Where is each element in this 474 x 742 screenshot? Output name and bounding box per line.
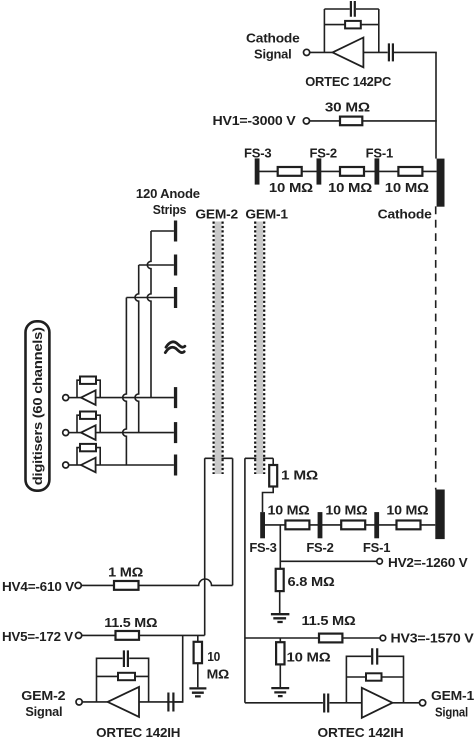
- svg-text:FS-1: FS-1: [363, 540, 390, 555]
- wire feedback loop right vertical: [378, 9, 380, 52]
- wire strip 1 horizontal: [151, 230, 174, 232]
- svg-text:Signal: Signal: [254, 47, 292, 62]
- node anode strip 4 bar: [174, 387, 177, 408]
- ground under 10 MOhm right: [271, 688, 289, 696]
- wire 10 MOhm right stem: [279, 638, 281, 642]
- svg-text:Signal: Signal: [25, 704, 62, 719]
- svg-text:FS-1: FS-1: [366, 145, 393, 160]
- GEM-2 foil strip: [214, 222, 223, 475]
- wire FS-3 node down to HV2 and 6.8 MOhm: [279, 525, 281, 569]
- wire feedback resistor rung: [324, 24, 378, 26]
- wire feedback top rung: [324, 8, 378, 10]
- svg-text:10 MΩ: 10 MΩ: [268, 503, 310, 518]
- node FS-1 top strip bar: [375, 158, 380, 184]
- resistor R4 10 MOhm: [340, 167, 364, 176]
- svg-text:GEM-2: GEM-2: [21, 688, 65, 703]
- wire HV3 horizontal: [245, 637, 380, 639]
- svg-text:10 MΩ: 10 MΩ: [386, 503, 428, 518]
- resistor R15 10 MOhm right: [276, 642, 284, 664]
- wire vertical bus 2 with hops: [135, 265, 139, 433]
- svg-text:FS-3: FS-3: [249, 540, 276, 555]
- resistor R14 11.5 MOhm right: [319, 634, 342, 643]
- svg-text:HV4=-610 V: HV4=-610 V: [2, 579, 75, 594]
- GEM-2 frame right electrode wire: [232, 458, 234, 585]
- GEM-1 foil strip: [255, 222, 264, 475]
- svg-text:Strips: Strips: [153, 202, 187, 217]
- resistor R8 10 MOhm: [341, 521, 365, 530]
- node HV3 terminal: [380, 635, 386, 641]
- node FS-3 bottom strip bar: [260, 512, 265, 538]
- wire 10 MOhm left to ground: [197, 663, 199, 687]
- GEM-1 frame top edge wire: [245, 457, 273, 459]
- op-amp A3 digitiser channel: [63, 444, 174, 472]
- node cathode electrode bar: [437, 159, 445, 207]
- resistor R7 10 MOhm: [285, 521, 309, 530]
- digitisers box: [26, 321, 50, 490]
- node Cathode Signal terminal: [304, 49, 310, 55]
- svg-text:digitisers (60 channels): digitisers (60 channels): [30, 327, 45, 485]
- resistor R2 30 MOhm: [340, 117, 362, 126]
- resistor R11 1 MOhm: [114, 581, 139, 590]
- node FS-2 bottom strip bar: [318, 512, 323, 538]
- resistor R3 10 MOhm: [278, 167, 302, 176]
- wire dashed field cage: [435, 206, 437, 489]
- resistor R12 11.5 MOhm: [116, 631, 140, 640]
- wire 10 MOhm right to ground: [279, 664, 281, 687]
- node HV2 terminal: [377, 559, 383, 565]
- svg-text:30 MΩ: 30 MΩ: [325, 99, 370, 114]
- capacitor C1 feedback of U1: [351, 1, 355, 17]
- svg-text:FS-2: FS-2: [310, 145, 337, 160]
- svg-text:HV5=-172 V: HV5=-172 V: [2, 629, 74, 644]
- wire top field strip chain: [257, 170, 437, 172]
- wire HV5 node down to GEM-2 amp coupling: [167, 635, 183, 702]
- svg-text:10 MΩ: 10 MΩ: [269, 180, 313, 195]
- node FS-1 bottom strip bar: [374, 512, 379, 538]
- svg-text:11.5 MΩ: 11.5 MΩ: [302, 613, 356, 628]
- resistor R1 feedback of U1: [345, 21, 361, 29]
- wire U1 input: [363, 51, 387, 53]
- wire bottom field strip chain: [263, 524, 436, 526]
- svg-text:6.8 MΩ: 6.8 MΩ: [288, 574, 335, 589]
- svg-text:ORTEC 142PC: ORTEC 142PC: [305, 74, 392, 89]
- svg-text:11.5 MΩ: 11.5 MΩ: [104, 615, 157, 630]
- resistor R9 10 MOhm: [397, 521, 421, 530]
- op-amp U1 triangle: [333, 38, 364, 68]
- wire 10 MOhm left stem: [197, 635, 199, 641]
- op-amp U2 ORTEC 142IH left (GEM-2): [76, 650, 183, 717]
- wire 30 MOhm to cathode bus: [362, 120, 437, 122]
- svg-text:GEM-1: GEM-1: [431, 688, 474, 703]
- svg-text:GEM-2: GEM-2: [195, 207, 238, 222]
- node HV1 terminal: [303, 118, 309, 124]
- wire 6.8 MOhm to ground: [279, 591, 281, 613]
- svg-text:120 Anode: 120 Anode: [136, 186, 200, 201]
- node anode strip 2 bar: [174, 255, 177, 276]
- svg-text:10 MΩ: 10 MΩ: [287, 649, 331, 664]
- wire coupling cap to cathode bus: [394, 51, 437, 53]
- svg-text:HV2=-1260 V: HV2=-1260 V: [388, 555, 468, 570]
- wire HV1 to resistor: [310, 120, 341, 122]
- wire U1 output to terminal: [310, 51, 333, 53]
- wire vertical bus 3 with hops: [123, 298, 127, 466]
- svg-text:MΩ: MΩ: [207, 666, 230, 681]
- svg-text:Cathode: Cathode: [378, 206, 432, 221]
- svg-text:10: 10: [207, 649, 220, 664]
- svg-text:GEM-1: GEM-1: [245, 207, 288, 222]
- svg-text:ORTEC 142IH: ORTEC 142IH: [96, 725, 180, 737]
- svg-text:Signal: Signal: [435, 704, 468, 719]
- resistor R5 10 MOhm: [398, 167, 422, 176]
- wire HV5 horizontal: [82, 634, 205, 636]
- svg-text:10 MΩ: 10 MΩ: [328, 180, 372, 195]
- capacitor C2 coupling to U1: [389, 43, 393, 61]
- ground under 6.8 MOhm: [271, 614, 290, 622]
- node FS-3 top strip bar: [255, 158, 260, 184]
- resistor R13 10 MOhm left: [194, 642, 202, 663]
- wire HV2 horizontal: [280, 560, 377, 562]
- resistor R10 6.8 MOhm: [276, 569, 284, 591]
- svg-text:HV1=-3000 V: HV1=-3000 V: [213, 113, 297, 128]
- node break symbol: [165, 342, 185, 353]
- wire 1 MOhm to FS-3 bottom bar: [263, 487, 274, 513]
- ground under 10 MOhm left: [189, 688, 206, 696]
- wire GEM-1 bottom electrode to coupling cap: [245, 702, 323, 704]
- GEM-2 frame left electrode wire: [204, 458, 206, 635]
- svg-text:FS-2: FS-2: [306, 540, 333, 555]
- node anode strip 1 bar: [174, 221, 177, 242]
- node HV5 terminal: [76, 632, 82, 638]
- node field cage bottom bar: [435, 490, 444, 540]
- wire GEM-1 top to 1 MOhm: [272, 458, 274, 465]
- op-amp U1 ORTEC 142PC feedback loop left vertical wire: [323, 9, 325, 52]
- wire cathode bus vertical: [435, 52, 437, 158]
- node FS-2 top strip bar: [317, 158, 322, 184]
- op-amp A2 digitiser channel: [63, 412, 174, 440]
- svg-text:FS-3: FS-3: [244, 145, 271, 160]
- resistor R6 1 MOhm: [269, 465, 277, 487]
- wire HV4 horizontal with hop over GEM-2 left electrode: [81, 579, 232, 585]
- node anode strip 3 bar: [174, 287, 177, 308]
- svg-text:Cathode: Cathode: [246, 30, 300, 45]
- wire strip 3 horizontal: [126, 297, 173, 299]
- op-amp U3 ORTEC 142IH right (GEM-1): [324, 648, 426, 718]
- node anode strip 5 bar: [174, 422, 177, 443]
- svg-text:10 MΩ: 10 MΩ: [325, 503, 367, 518]
- svg-text:1 MΩ: 1 MΩ: [281, 468, 318, 483]
- wire vertical bus 1 with hops: [147, 231, 151, 398]
- node HV4 terminal: [75, 582, 81, 588]
- svg-text:HV3=-1570 V: HV3=-1570 V: [391, 631, 474, 646]
- svg-text:ORTEC 142IH: ORTEC 142IH: [318, 725, 404, 737]
- GEM-1 frame left electrode wire: [244, 458, 246, 703]
- GEM-2 frame top edge wire: [205, 457, 233, 459]
- wire strip 2 horizontal: [139, 264, 174, 266]
- node anode strip 6 bar: [174, 455, 177, 476]
- op-amp A1 digitiser channel: [63, 377, 174, 405]
- svg-text:10 MΩ: 10 MΩ: [385, 180, 429, 195]
- svg-text:1 MΩ: 1 MΩ: [108, 565, 143, 580]
